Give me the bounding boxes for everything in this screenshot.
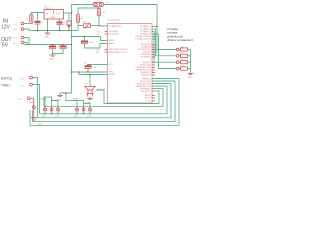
resistor R3 vertical (98, 7, 100, 9)
ground under regulator left (44, 31, 51, 39)
svg-text:AREF: AREF (109, 39, 115, 42)
wire switch1 down to bus3 (32, 78, 38, 118)
svg-text:dzielny wyświetlacz: dzielny wyświetlacz (167, 38, 194, 42)
svg-text:5V: 5V (2, 43, 9, 49)
wire C5 to gnd rail (87, 68, 89, 72)
svg-text:SG1: SG1 (84, 84, 89, 86)
svg-text:ADC7: ADC7 (145, 97, 151, 100)
svg-text:X3-3: X3-3 (17, 99, 22, 101)
svg-text:PC6(/RESET): PC6(/RESET) (109, 26, 122, 28)
note text block (167, 27, 194, 42)
capacitor C2 (59, 19, 61, 22)
svg-text:X1-1: X1-1 (13, 24, 18, 26)
wire rail up to top (72, 5, 94, 14)
svg-text:TriAT1: TriAT1 (1, 84, 10, 88)
wire VCC branch (88, 64, 108, 66)
wire 12V return (24, 29, 78, 31)
svg-text:X2-2: X2-2 (13, 43, 18, 45)
bus wire 2 (33, 81, 176, 121)
wire pad to fuse (24, 23, 30, 25)
pad X3-1 (30, 76, 33, 79)
wire fuse to regulator (31, 13, 44, 15)
wire buzzer drive (89, 74, 91, 76)
svg-text:PB6(XTAL1/TOSC1): PB6(XTAL1/TOSC1) (109, 48, 128, 51)
bus wire 4 (40, 86, 168, 114)
capacitor C1 (37, 13, 39, 21)
wire rail branch R1 (77, 8, 79, 15)
svg-text:X3-1: X3-1 (20, 79, 25, 81)
resistor R1 (77, 15, 80, 23)
svg-text:LED1: LED1 (60, 24, 66, 26)
svg-text:X3-2: X3-2 (20, 86, 25, 88)
gnd marks JP2 (76, 111, 92, 114)
svg-text:PB5(SCK): PB5(SCK) (141, 91, 151, 93)
svg-text:GND: GND (187, 77, 192, 79)
output row 2 : pad, resistor R5 (176, 53, 190, 58)
svg-text:VCC: VCC (109, 64, 114, 66)
trimmer R2 (78, 25, 84, 27)
bus wire 0 buzzer (104, 91, 159, 104)
svg-text:X2-1: X2-1 (13, 38, 18, 40)
connector JP1 (44, 97, 60, 111)
pad X3-2 (30, 83, 33, 86)
wire C4 to AVCC (85, 44, 108, 49)
wire AREF net (60, 13, 72, 93)
wire switch2 down to bus4 (32, 85, 40, 114)
svg-text:GND: GND (51, 17, 56, 19)
wire common right vertical (190, 50, 192, 69)
svg-text:12V: 12V (1, 25, 11, 31)
wire regulator gnd stub (47, 19, 49, 31)
ground mid bottom (56, 93, 63, 102)
svg-text:GND1: GND1 (40, 99, 46, 101)
output row 4 : pad, resistor R7 (176, 65, 190, 70)
fuse F1 (30, 14, 33, 24)
output row 1 : pad, resistor R4 (176, 46, 190, 51)
svg-text:PD7(AIN1): PD7(AIN1) (141, 56, 151, 59)
IC2 left pin labels (109, 26, 128, 76)
svg-text:GND: GND (44, 37, 49, 39)
wire fan to led rows (156, 29, 177, 56)
wire rail to row1 (157, 49, 176, 51)
wire 5V out left (24, 38, 29, 45)
fuse F2 top (93, 2, 104, 6)
svg-text:IC2 MEGA8-P: IC2 MEGA8-P (107, 19, 121, 22)
svg-text:AGND: AGND (109, 73, 115, 76)
wire R3 to reset (99, 16, 104, 26)
gnd marks JP1 (44, 111, 60, 114)
wire rail y8 (78, 7, 99, 10)
wire OUT rail (64, 12, 72, 14)
junction 12v gnd (47, 30, 49, 32)
svg-text:SwiTCg: SwiTCg (1, 77, 12, 81)
IC2 left stubs (104, 25, 108, 27)
wire buzzer right (96, 90, 104, 104)
wire pad3 to button (30, 97, 34, 99)
ground under C3 (49, 54, 56, 61)
bus wire 5 (44, 89, 163, 107)
svg-text:AVCC: AVCC (109, 42, 115, 45)
svg-text:100n: 100n (89, 42, 95, 44)
IC2 right pin labels (135, 25, 151, 103)
svg-text:PD1(TXD): PD1(TXD) (109, 34, 119, 36)
wire AGND branch (71, 71, 73, 73)
wire gnd to JP2 (65, 92, 67, 94)
svg-text:PB7(XTAL2/TOSC2): PB7(XTAL2/TOSC2) (109, 51, 128, 54)
wire gnd to IC (72, 71, 108, 73)
svg-text:X1-2: X1-2 (13, 29, 18, 31)
capacitor C6 (62, 44, 64, 46)
svg-text:PB5(SCK): PB5(SCK) (141, 75, 151, 77)
ground under buzzer (86, 97, 93, 105)
capacitor C4 (84, 36, 86, 38)
capacitor C3 (52, 44, 54, 46)
IC2 right unconnected pin stubs (152, 45, 155, 102)
svg-text:GND: GND (49, 59, 54, 61)
connector JP2 (76, 101, 92, 112)
bus wire 3 (38, 84, 172, 118)
bus wire 1 (30, 79, 179, 126)
svg-text:100n: 100n (92, 67, 98, 69)
junction 5v (71, 44, 73, 46)
wire top rail right (103, 5, 157, 54)
ground led cluster (187, 69, 194, 79)
IC2 right stubs top (152, 27, 159, 40)
svg-text:PC5(ADC5/SCL): PC5(ADC5/SCL) (135, 38, 150, 41)
output row 3 : pad, resistor R6 (176, 59, 190, 64)
IC2 right stubs bottom (152, 79, 179, 92)
wire R1 bottom (77, 23, 79, 31)
